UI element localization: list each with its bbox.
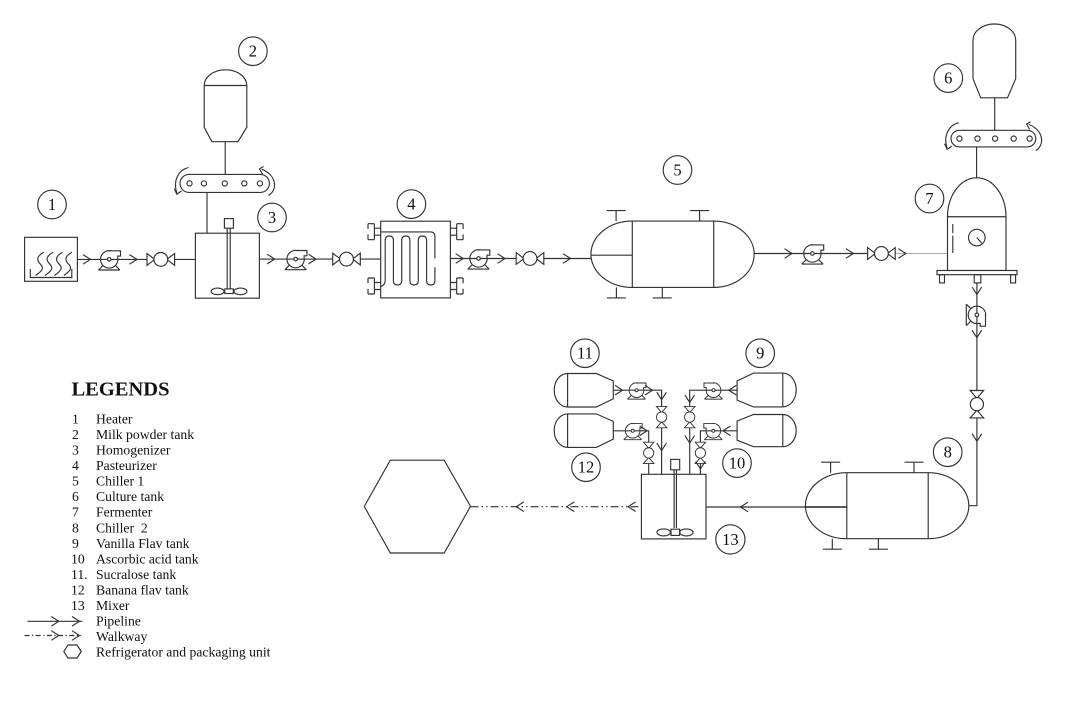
svg-text:3: 3 <box>268 208 276 227</box>
pump P9 (mirrored) <box>703 423 722 439</box>
label circle 8 <box>933 438 962 467</box>
pump P8 (mirrored) <box>704 383 723 399</box>
svg-text:13: 13 <box>722 530 739 549</box>
wire: conveyor1 to homogenizer <box>206 192 208 233</box>
svg-text:Mixer: Mixer <box>96 598 130 613</box>
svg-text:11.: 11. <box>71 567 88 582</box>
chiller2 top nozzles <box>821 462 840 473</box>
pasteurizer nozzle top-right <box>450 224 463 240</box>
legend walkway symbol <box>25 631 82 641</box>
svg-text:Heater: Heater <box>96 411 133 426</box>
label circle 10 <box>723 449 752 478</box>
svg-text:4: 4 <box>407 195 415 214</box>
arrow valve4-fermenter <box>898 249 906 259</box>
svg-text:13: 13 <box>71 598 85 613</box>
svg-text:9: 9 <box>756 344 764 363</box>
wire: silo to conveyor1 <box>224 142 226 175</box>
valve V9 <box>695 442 706 463</box>
arrow chiller1-pump4 <box>785 249 793 259</box>
svg-text:5: 5 <box>72 474 79 489</box>
svg-text:7: 7 <box>925 189 933 208</box>
wire: conveyor2 to fermenter <box>976 147 978 181</box>
conveyor 2 <box>951 130 1036 147</box>
arrow valve6-mixer <box>657 443 667 451</box>
svg-text:Pipeline: Pipeline <box>96 614 141 629</box>
arrow pump4-valve4 <box>846 249 854 259</box>
arrow pump6-corner <box>645 385 653 395</box>
wire: chiller2 to mixer <box>706 506 805 508</box>
svg-text:Refrigerator and packaging uni: Refrigerator and packaging unit <box>96 645 271 660</box>
wire: walkway mixer to refrigerator <box>471 506 642 508</box>
chiller1 top nozzles <box>607 211 626 222</box>
arrow homog-pump2 <box>267 254 275 264</box>
fermenter 7 <box>937 178 1017 283</box>
conveyor 1 <box>180 174 269 192</box>
svg-text:Culture tank: Culture tank <box>96 489 164 504</box>
arrow valve8-mixer <box>685 436 695 444</box>
arrow tank9-pump8 <box>729 385 737 395</box>
label circle 7 <box>915 184 944 213</box>
wire: pasteurizer to chiller1 pipeline <box>450 258 591 260</box>
valve V4 <box>868 247 896 261</box>
label circle 1 <box>38 190 67 219</box>
svg-text:Ascorbic acid tank: Ascorbic acid tank <box>96 551 199 566</box>
arrow fermenter-pump5 <box>972 287 982 295</box>
arrow tank10-pump9 <box>723 426 731 436</box>
pasteurizer 4 <box>381 221 451 298</box>
arrow heater-pump <box>83 255 91 265</box>
conveyor1 left rotation arrow <box>174 168 188 195</box>
conveyor1 right rotation arrow <box>260 167 275 196</box>
svg-text:4: 4 <box>72 458 79 473</box>
svg-text:7: 7 <box>72 505 79 520</box>
milk powder silo 2 <box>204 70 247 142</box>
pump P3 <box>468 250 491 270</box>
svg-text:Chiller 1: Chiller 1 <box>96 474 144 489</box>
wire: chiller1 to fermenter pipeline <box>754 253 889 255</box>
svg-text:6: 6 <box>944 69 952 88</box>
svg-text:5: 5 <box>673 161 681 180</box>
pasteurizer nozzle bottom-right <box>450 278 463 294</box>
vanilla tank 9 <box>737 373 796 407</box>
ascorbic tank 10 <box>737 415 796 447</box>
walkway arrow 2 <box>567 502 575 512</box>
svg-text:LEGENDS: LEGENDS <box>72 379 170 401</box>
label circle 12 <box>572 453 601 482</box>
svg-text:3: 3 <box>72 443 79 458</box>
chiller1 bottom nozzles <box>607 287 626 298</box>
pump P4 <box>802 245 825 265</box>
pump P6 <box>628 383 647 399</box>
arrow past-pump3 <box>456 254 464 264</box>
svg-text:10: 10 <box>729 454 746 473</box>
svg-text:1: 1 <box>48 195 56 214</box>
svg-text:Milk powder tank: Milk powder tank <box>96 427 194 442</box>
arrow valve9-mixer <box>696 461 706 469</box>
wire: tank10 to mixer <box>700 431 737 475</box>
svg-text:8: 8 <box>944 443 952 462</box>
conveyor2 left rotation arrow <box>945 123 959 150</box>
walkway arrow 3 <box>628 502 636 512</box>
svg-text:9: 9 <box>72 536 79 551</box>
svg-text:Homogenizer: Homogenizer <box>96 443 171 458</box>
arrow valve5-chiller2 <box>972 434 982 442</box>
arrow pump2-valve2 <box>309 254 317 264</box>
label circle 11 <box>571 339 600 368</box>
label circle 4 <box>397 190 426 219</box>
svg-text:Pasteurizer: Pasteurizer <box>96 458 157 473</box>
svg-text:Vanilla Flav tank: Vanilla Flav tank <box>96 536 190 551</box>
valve V3 <box>516 252 544 266</box>
svg-text:12: 12 <box>71 583 85 598</box>
valve V6 <box>656 406 667 427</box>
arrow chiller2-mixer <box>741 502 749 512</box>
conveyor2 right rotation arrow <box>1027 122 1042 151</box>
chiller2 bottom nozzles <box>823 539 842 550</box>
label circle 2 <box>239 37 268 66</box>
wire: tank12 to mixer <box>613 431 648 475</box>
legend hexagon symbol <box>64 645 82 658</box>
pasteurizer nozzle top-left <box>368 224 381 240</box>
pasteurizer nozzle bottom-left <box>368 278 381 294</box>
heater 1 <box>25 237 78 281</box>
chiller1 vessel 5 <box>591 221 754 287</box>
arrow valve3-chiller1 <box>563 254 571 264</box>
pump P1 <box>99 251 122 271</box>
valve V7 <box>643 442 654 463</box>
refrigerator and packaging unit hexagon <box>364 460 470 553</box>
legend pipeline symbol <box>28 617 83 627</box>
svg-text:1: 1 <box>72 411 79 426</box>
banana tank 12 <box>554 414 613 448</box>
homogenizer 3 <box>195 219 259 299</box>
wire: tank9 to mixer <box>690 390 737 474</box>
svg-text:12: 12 <box>578 458 595 477</box>
wire: culture tank to conveyor2 <box>994 98 996 131</box>
svg-text:Fermenter: Fermenter <box>96 505 153 520</box>
label circle 6 <box>934 64 963 93</box>
arrow corner-valve6 <box>657 392 667 400</box>
valve V8 <box>684 406 695 427</box>
svg-text:2: 2 <box>249 42 257 61</box>
svg-text:11: 11 <box>577 344 593 363</box>
pump P5 (vertical) <box>966 304 986 327</box>
wire: heater to homogenizer pipeline <box>77 258 195 260</box>
label circle 3 <box>258 203 287 232</box>
svg-text:Sucralose tank: Sucralose tank <box>96 567 176 582</box>
arrow corner-valve8 <box>685 395 695 403</box>
svg-text:2: 2 <box>72 427 79 442</box>
walkway arrow 1 <box>516 502 524 512</box>
svg-text:6: 6 <box>72 489 79 504</box>
svg-text:Walkway: Walkway <box>96 629 148 644</box>
arrow pump3-valve3 <box>498 254 506 264</box>
pump P2 <box>285 250 308 270</box>
arrow pump-valve <box>130 255 138 265</box>
svg-text:Banana flav tank: Banana flav tank <box>96 583 189 598</box>
arrow pump5-valve5 <box>972 330 982 338</box>
label circle 9 <box>746 339 775 368</box>
wire: homogenizer to pasteurizer pipeline <box>259 258 380 260</box>
sucralose tank 11 <box>554 374 613 408</box>
chiller2 vessel 8 <box>805 473 968 539</box>
svg-text:Chiller 2: Chiller 2 <box>96 520 148 535</box>
mixer 13 <box>641 459 706 538</box>
label circle 13 <box>716 525 745 554</box>
svg-text:8: 8 <box>72 520 79 535</box>
wire: tank11 to mixer <box>613 390 661 474</box>
arrow pump7-corner <box>640 426 648 436</box>
culture tank 6 <box>973 24 1016 98</box>
valve V2 <box>333 252 361 266</box>
label circle 5 <box>663 156 692 185</box>
wire: fermenter outlet down to chiller2 <box>969 283 977 506</box>
arrow tank11-pump6 <box>615 385 623 395</box>
pump P7 <box>624 423 643 439</box>
valve V1 <box>147 253 175 267</box>
svg-text:10: 10 <box>71 551 85 566</box>
valve V5 (vertical) <box>970 391 984 418</box>
